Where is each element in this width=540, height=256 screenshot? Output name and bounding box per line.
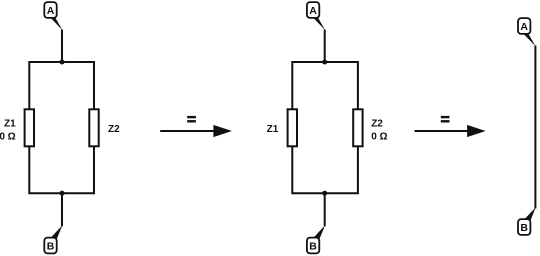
impedance Z2, left circuit xyxy=(89,109,98,146)
label Z2 with value 0 Ohm, middle circuit xyxy=(371,119,387,143)
wire: bottom node to node B stub, middle circuit xyxy=(324,192,326,226)
svg-text:A: A xyxy=(520,21,528,33)
wire: node A stub to top node, left circuit xyxy=(61,30,63,64)
svg-text:B: B xyxy=(309,241,317,253)
wire: left branch upper, middle circuit xyxy=(291,61,293,109)
label Z1, middle circuit xyxy=(267,124,279,135)
svg-text:A: A xyxy=(309,5,317,17)
equals sign above arrow 2 xyxy=(441,116,450,123)
node (junction dot) top, middle circuit xyxy=(322,60,327,65)
wire: left branch upper, left circuit xyxy=(28,61,30,109)
node flag B box, middle circuit xyxy=(307,238,319,254)
node flag B box, left circuit xyxy=(44,238,56,254)
node flag A box, right circuit xyxy=(518,18,530,34)
svg-text:A: A xyxy=(47,5,55,17)
node flag B pointer, middle circuit xyxy=(311,225,325,240)
svg-text:0 Ω: 0 Ω xyxy=(371,132,387,143)
wire: left branch lower, middle circuit xyxy=(291,147,293,194)
wire: top horizontal, middle circuit xyxy=(292,61,358,63)
impedance Z1 (0 Ohm), left circuit xyxy=(25,109,34,146)
svg-text:0 Ω: 0 Ω xyxy=(0,132,16,143)
node flag A box, left circuit xyxy=(44,2,56,18)
wire: node A stub, middle circuit xyxy=(324,30,326,64)
equivalence arrow 2 head xyxy=(467,125,486,137)
label B, left circuit flag xyxy=(47,241,55,253)
label Z1 with value 0 Ohm, left circuit xyxy=(0,119,16,143)
equals sign above arrow 1 xyxy=(187,116,196,123)
equivalence arrow 1 head xyxy=(213,125,232,137)
wire: right branch lower, left circuit xyxy=(93,147,95,194)
label A, right circuit flag xyxy=(520,21,528,33)
svg-text:B: B xyxy=(47,241,55,253)
wire: right branch upper, left circuit xyxy=(93,61,95,109)
equivalence arrow 1 shaft xyxy=(160,130,215,132)
label A, middle circuit flag xyxy=(309,5,317,17)
label B, right circuit flag xyxy=(520,222,528,234)
label B, middle circuit flag xyxy=(309,241,317,253)
svg-text:B: B xyxy=(520,222,528,234)
node (junction dot) top, left circuit xyxy=(60,60,65,65)
node flag A box, middle circuit xyxy=(307,2,319,18)
equivalence arrow 2 shaft xyxy=(415,130,469,132)
svg-text:Z1: Z1 xyxy=(267,124,279,135)
node (junction dot) bottom, left circuit xyxy=(60,191,65,196)
wire: node A stub, right circuit xyxy=(534,46,536,209)
svg-text:Z2: Z2 xyxy=(371,119,383,130)
wire: left branch lower, left circuit xyxy=(28,147,30,194)
label Z2, left circuit xyxy=(108,124,120,135)
impedance Z1, middle circuit xyxy=(288,109,297,146)
node flag B pointer, right circuit xyxy=(522,207,535,221)
impedance Z2 (0 Ohm), middle circuit xyxy=(353,109,362,146)
wire: top horizontal, left circuit xyxy=(29,61,94,63)
wire: bottom horizontal, left circuit xyxy=(29,192,94,194)
wire: bottom horizontal, middle circuit xyxy=(292,192,358,194)
node flag A pointer, left circuit xyxy=(47,14,63,30)
node flag B box, right circuit xyxy=(518,219,530,235)
svg-text:Z2: Z2 xyxy=(108,124,120,135)
wire: bottom node to node B stub, left circuit xyxy=(61,192,63,226)
node flag B pointer, left circuit xyxy=(49,225,63,240)
node flag A pointer, middle circuit xyxy=(310,14,326,30)
svg-text:Z1: Z1 xyxy=(4,119,16,130)
wire: right branch lower, middle circuit xyxy=(357,147,359,194)
node flag A pointer, right circuit xyxy=(520,31,536,47)
node (junction dot) bottom, middle circuit xyxy=(322,191,327,196)
label A, left circuit flag xyxy=(47,5,55,17)
wire: right branch upper, middle circuit xyxy=(357,61,359,109)
